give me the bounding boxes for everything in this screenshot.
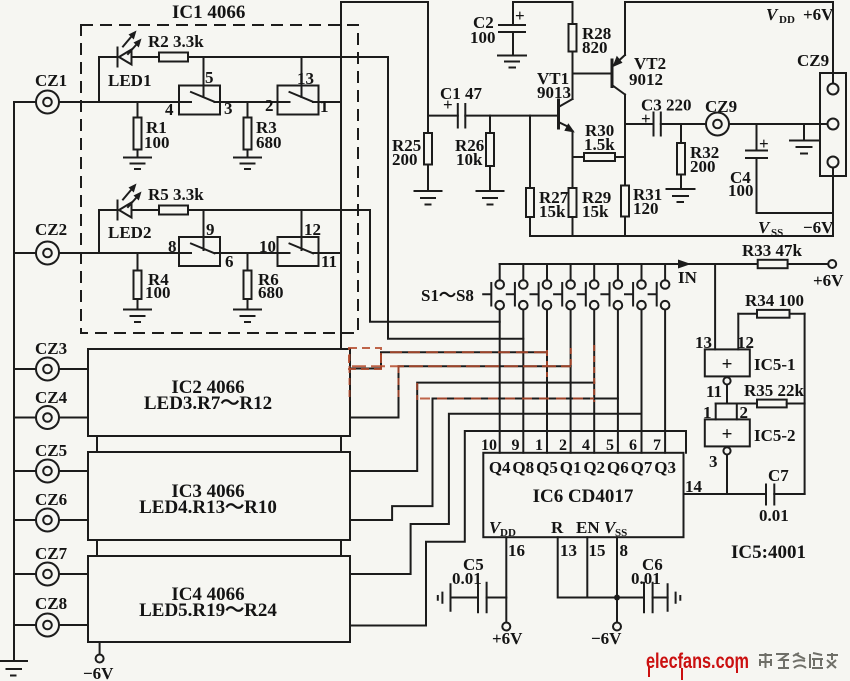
svg-text:8: 8 xyxy=(620,541,629,560)
resistor R2 xyxy=(159,53,188,62)
resistor R5 xyxy=(159,206,188,215)
svg-text:8: 8 xyxy=(168,237,177,256)
wire: left bus vertical xyxy=(13,102,15,661)
svg-text:5: 5 xyxy=(606,437,614,454)
svg-text:9012: 9012 xyxy=(629,70,663,89)
svg-text:14: 14 xyxy=(685,477,703,496)
wire: switch4 out to bus xyxy=(313,252,341,254)
svg-text:Q7: Q7 xyxy=(631,458,653,477)
svg-text:CZ6: CZ6 xyxy=(35,490,67,509)
wire: R5 line to riser xyxy=(188,209,370,211)
IN arrow xyxy=(678,260,691,269)
wire: VT1 collector node to VT2 base xyxy=(573,73,613,75)
wire: IC2 out b to S4 xyxy=(350,366,571,417)
node CZ1 xyxy=(14,101,36,103)
svg-text:2: 2 xyxy=(559,437,567,454)
svg-text:Q8: Q8 xyxy=(512,458,534,477)
wire: C1 input drop xyxy=(427,2,429,133)
resistor R34 xyxy=(738,313,757,315)
wire: box connectors right xyxy=(340,436,342,556)
resistor R29 xyxy=(569,188,577,217)
ground R6 xyxy=(234,310,261,323)
ground R32 xyxy=(667,189,695,202)
wire: LED2 branch xyxy=(99,210,118,253)
ground C5 (left-pointing) xyxy=(438,584,451,610)
svg-text:0.01: 0.01 xyxy=(631,569,661,588)
ground R1 xyxy=(124,158,151,170)
svg-text:R2 3.3k: R2 3.3k xyxy=(148,32,204,51)
wire: IC2 out a to S3 xyxy=(350,352,547,368)
node CZ3 xyxy=(14,368,36,370)
svg-text:IC5-1: IC5-1 xyxy=(754,355,796,374)
node CZ2 xyxy=(14,252,36,254)
ground R26 xyxy=(477,191,504,205)
node CZ9 jack xyxy=(706,113,729,136)
resistor R28 xyxy=(572,2,574,24)
IC1 dashed box xyxy=(81,25,358,333)
svg-text:+: + xyxy=(515,6,525,25)
svg-text:+: + xyxy=(722,354,733,375)
wire: pin12 drop xyxy=(737,314,739,350)
capacitor C6 xyxy=(617,597,644,599)
svg-text:5: 5 xyxy=(205,68,214,87)
ground bottom-left xyxy=(0,661,27,676)
node CZ8 xyxy=(14,624,36,626)
switch IC1c (pins 8,6,9) xyxy=(179,237,220,266)
svg-text:R35 22k: R35 22k xyxy=(744,381,805,400)
svg-text:100: 100 xyxy=(144,133,170,152)
svg-text:16: 16 xyxy=(508,541,525,560)
CJK watermark glyphs (dianzi fashaoyou) xyxy=(759,653,838,668)
svg-text:15k: 15k xyxy=(539,202,566,221)
svg-text:4: 4 xyxy=(582,437,590,454)
wire: control pin5 xyxy=(203,57,205,97)
svg-text:S1～S8: S1～S8 xyxy=(421,286,474,305)
svg-text:R5 3.3k: R5 3.3k xyxy=(148,185,204,204)
svg-text:+: + xyxy=(722,424,733,445)
switch S8 xyxy=(664,264,666,280)
wire: IC3 out a to S5 xyxy=(350,383,594,471)
svg-text:Q4: Q4 xyxy=(489,458,511,477)
svg-text:LED2: LED2 xyxy=(108,223,151,242)
wire: pin 14 xyxy=(684,493,767,495)
resistor R1 xyxy=(137,102,139,118)
op-amp gate IC5-1 xyxy=(705,349,750,376)
resistor R31 xyxy=(621,186,629,217)
svg-text:15k: 15k xyxy=(582,202,609,221)
svg-text:0.01: 0.01 xyxy=(759,506,789,525)
svg-text:DD: DD xyxy=(779,14,795,26)
svg-text:13: 13 xyxy=(560,541,577,560)
switch S3 xyxy=(546,264,548,280)
svg-text:elecfans.com: elecfans.com xyxy=(646,650,749,673)
svg-text:EN: EN xyxy=(576,518,600,537)
svg-text:LED5.R19～R24: LED5.R19～R24 xyxy=(139,600,277,621)
svg-text:10: 10 xyxy=(481,437,497,454)
svg-text:Q6: Q6 xyxy=(607,458,629,477)
svg-text:1: 1 xyxy=(535,437,543,454)
red watermark lines xyxy=(390,351,547,353)
svg-text:Q2: Q2 xyxy=(583,458,605,477)
wire: box connectors left xyxy=(96,436,98,556)
capacitor C5 xyxy=(487,597,507,599)
svg-text:2: 2 xyxy=(265,96,274,115)
LED LED2 xyxy=(117,201,119,220)
svg-text:V: V xyxy=(758,218,771,237)
transistor VT2 9012 xyxy=(611,60,614,87)
svg-text:DD: DD xyxy=(500,527,516,539)
resistor R25 xyxy=(424,133,432,165)
wire: mixer bus vertical x341 xyxy=(340,2,342,349)
capacitor C4 xyxy=(756,124,758,151)
capacitor C2 xyxy=(512,2,514,25)
svg-text:120: 120 xyxy=(633,199,659,218)
svg-text:+: + xyxy=(759,134,769,153)
svg-text:−6V: −6V xyxy=(83,664,114,681)
capacitor C1 xyxy=(428,115,458,117)
IC3 box xyxy=(88,452,350,540)
IC2 box xyxy=(88,349,350,436)
svg-text:3: 3 xyxy=(709,452,718,471)
ground R4 xyxy=(124,310,151,323)
svg-text:100: 100 xyxy=(728,181,754,200)
wire: +6V rail drop to CZ9 box xyxy=(832,2,834,84)
resistor R30 xyxy=(573,156,585,158)
svg-text:CZ4: CZ4 xyxy=(35,388,68,407)
svg-text:IC5:4001: IC5:4001 xyxy=(731,542,806,563)
svg-text:V: V xyxy=(766,5,779,24)
node -6V under IC4 xyxy=(99,642,101,655)
wire: node to R35 xyxy=(716,403,757,405)
svg-text:CZ1: CZ1 xyxy=(35,71,67,90)
svg-text:−6V: −6V xyxy=(591,629,622,648)
wire: control pin9 xyxy=(203,210,205,250)
wire: IC4 out a to S7 xyxy=(350,414,642,574)
ground near CZ9 box xyxy=(803,124,805,140)
svg-text:10: 10 xyxy=(259,237,276,256)
wire: IC4 out b to S8 and IC6 comb shelf xyxy=(350,431,686,626)
svg-text:12: 12 xyxy=(304,220,321,239)
svg-text:15: 15 xyxy=(589,541,606,560)
svg-text:6: 6 xyxy=(225,252,234,271)
svg-text:0.01: 0.01 xyxy=(452,569,482,588)
resistor R35 xyxy=(757,400,787,408)
wire: control pin12 xyxy=(301,210,303,250)
capacitor C3 xyxy=(625,123,654,125)
ground R3 xyxy=(234,158,261,170)
wire: CZ3-CZ8 stubs to boxes xyxy=(59,369,88,625)
svg-text:6: 6 xyxy=(629,437,637,454)
wire: pins 13 15 to 8 xyxy=(558,537,617,597)
svg-text:LED4.R13～R10: LED4.R13～R10 xyxy=(139,497,277,518)
LED2 arrows xyxy=(123,190,131,200)
wire: CZ9 jack to box xyxy=(729,123,828,125)
svg-text:+6V: +6V xyxy=(803,5,834,24)
resistor R3 xyxy=(247,102,249,118)
svg-text:CZ9: CZ9 xyxy=(797,51,829,70)
svg-text:CZ8: CZ8 xyxy=(35,594,67,613)
svg-text:1: 1 xyxy=(320,97,329,116)
resistor R27 xyxy=(529,116,531,188)
svg-text:680: 680 xyxy=(256,133,282,152)
svg-text:C7: C7 xyxy=(768,466,789,485)
ground R25 xyxy=(415,191,442,205)
node pin11 bubble xyxy=(723,377,730,384)
ground C2 xyxy=(498,56,526,68)
wire: R2 line to riser xyxy=(188,56,388,58)
wire: rail B xyxy=(513,1,573,3)
switch S7 xyxy=(641,264,643,280)
svg-text:LED3.R7～R12: LED3.R7～R12 xyxy=(144,393,272,414)
resistor R26 xyxy=(489,116,491,133)
svg-text:CZ5: CZ5 xyxy=(35,441,67,460)
wire: pins 1 2 cell xyxy=(716,404,737,420)
IC4 box xyxy=(88,556,350,642)
wire: IC5 right feedback vertical xyxy=(804,314,806,494)
switch S5 xyxy=(593,264,595,280)
wire: pin13 drop xyxy=(714,264,716,349)
svg-text:10k: 10k xyxy=(456,150,483,169)
svg-text:R: R xyxy=(551,518,564,537)
svg-text:R34 100: R34 100 xyxy=(745,291,804,310)
svg-text:Q3: Q3 xyxy=(654,458,676,477)
wire: rail C (+6V) xyxy=(625,1,833,3)
svg-text:9: 9 xyxy=(512,437,520,454)
svg-text:100: 100 xyxy=(145,283,171,302)
svg-text:Q1: Q1 xyxy=(560,458,582,477)
node CZ7 xyxy=(14,573,36,575)
op-amp gate IC5-2 xyxy=(705,419,750,446)
node CZ4 xyxy=(14,417,36,419)
svg-text:CZ2: CZ2 xyxy=(35,220,67,239)
switch IC1d (pins 10,11,12) xyxy=(278,237,319,266)
svg-text:200: 200 xyxy=(690,157,716,176)
resistor R33 xyxy=(758,260,788,268)
svg-text:−6V: −6V xyxy=(803,218,834,237)
wire: row2 LED line riser to S1 xyxy=(370,210,500,322)
connector CZ9 box xyxy=(820,73,846,176)
svg-text:SS: SS xyxy=(771,227,783,239)
wire: switch2 out to bus xyxy=(313,101,341,103)
svg-text:IC5-2: IC5-2 xyxy=(754,426,796,445)
svg-text:R33 47k: R33 47k xyxy=(742,241,803,260)
junction dot xyxy=(614,595,620,601)
svg-text:3: 3 xyxy=(224,99,233,118)
svg-text:7: 7 xyxy=(653,437,661,454)
wire: CZ2 to switch3 xyxy=(59,252,191,254)
switch S4 xyxy=(570,264,572,280)
svg-text:4: 4 xyxy=(165,100,174,119)
node pin3 bubble xyxy=(723,447,730,454)
svg-text:CZ3: CZ3 xyxy=(35,339,67,358)
svg-text:+6V: +6V xyxy=(492,629,523,648)
switch IC1b (pins 2,1,13) xyxy=(278,86,319,115)
node +6V terminal xyxy=(828,260,836,268)
wire: IC3 out b to S6 xyxy=(350,399,618,521)
wire: row1 LED line riser to S2 xyxy=(388,57,523,339)
svg-text:820: 820 xyxy=(582,38,608,57)
capacitor C7 xyxy=(766,485,774,505)
wire: CZ1 to switch 1 input xyxy=(59,101,191,103)
svg-text:CZ7: CZ7 xyxy=(35,544,68,563)
wire: switch3 out to switch4 xyxy=(215,252,290,254)
svg-text:1.5k: 1.5k xyxy=(584,135,615,154)
svg-text:11: 11 xyxy=(706,382,722,401)
wire: CZ9 box bottom to VSS xyxy=(832,168,834,237)
switch IC1a (pins 4,3,5) xyxy=(179,86,220,115)
node CZ6 xyxy=(14,519,36,521)
resistor R4 xyxy=(137,253,139,271)
svg-text:IN: IN xyxy=(678,268,698,287)
wire: LED1 branch xyxy=(99,57,118,102)
ground C6 (right-pointing) xyxy=(668,584,681,610)
transistor VT1 9013 xyxy=(557,100,560,128)
wire: pin16 drop xyxy=(505,537,507,622)
svg-text:IC6 CD4017: IC6 CD4017 xyxy=(533,486,634,507)
resistor R6 xyxy=(247,253,249,271)
svg-text:200: 200 xyxy=(392,150,418,169)
svg-text:Q5: Q5 xyxy=(536,458,558,477)
wire: VSS bus xyxy=(530,235,833,237)
switch S6 xyxy=(617,264,619,280)
svg-text:680: 680 xyxy=(258,283,284,302)
switch S2 xyxy=(522,264,524,280)
IC6 box xyxy=(483,453,683,537)
wire: signal rail A xyxy=(341,1,428,3)
svg-text:C1 47: C1 47 xyxy=(440,84,483,103)
svg-text:LED1: LED1 xyxy=(108,71,151,90)
LED LED1 xyxy=(117,48,119,67)
svg-text:CZ9: CZ9 xyxy=(705,97,737,116)
node CZ5 xyxy=(14,470,36,472)
svg-text:+6V: +6V xyxy=(813,271,844,290)
wire: control pin13 xyxy=(301,57,303,97)
wire: pin8 drop xyxy=(616,537,618,622)
svg-text:9013: 9013 xyxy=(537,83,571,102)
svg-text:9: 9 xyxy=(206,220,215,239)
switch S1 xyxy=(499,264,501,280)
wire: IN bus xyxy=(500,263,758,265)
svg-text:11: 11 xyxy=(321,252,337,271)
svg-text:13: 13 xyxy=(297,69,314,88)
red drips xyxy=(649,667,737,680)
svg-text:C3 220: C3 220 xyxy=(641,96,692,115)
svg-text:100: 100 xyxy=(470,28,496,47)
red watermark box xyxy=(349,348,381,369)
resistor R32 xyxy=(680,124,682,143)
LED1 arrows xyxy=(123,37,131,47)
svg-text:IC1 4066: IC1 4066 xyxy=(172,2,245,23)
wire: switch1 out to switch2 xyxy=(215,101,290,103)
